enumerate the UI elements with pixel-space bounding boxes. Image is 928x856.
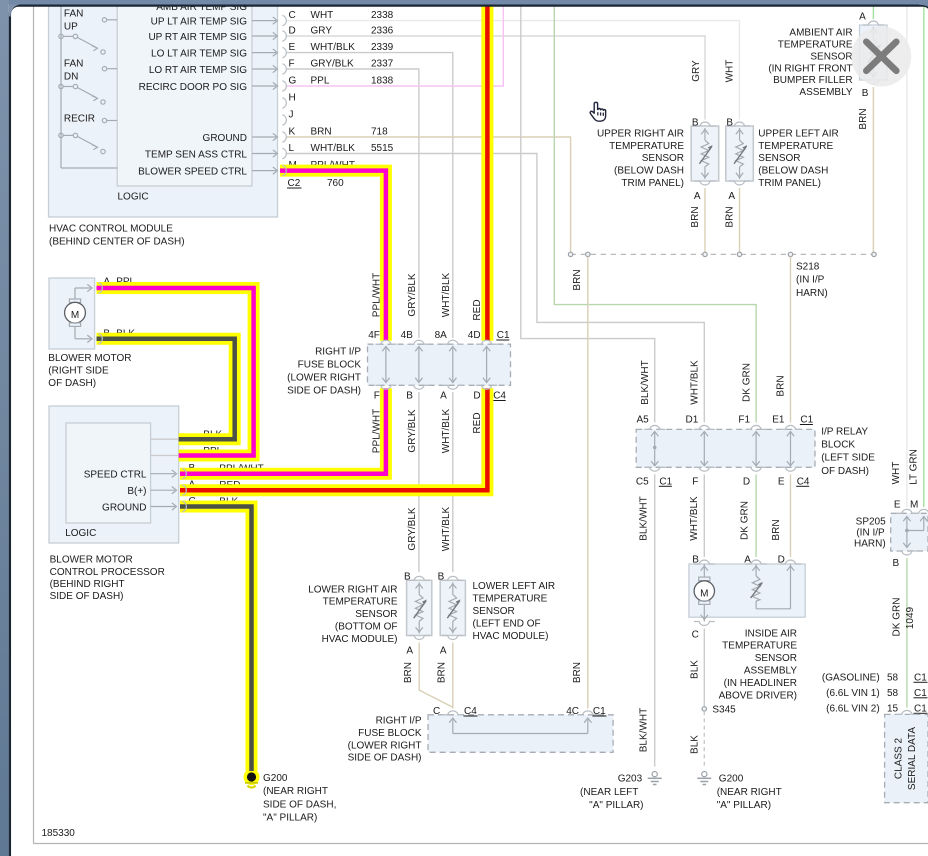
svg-text:LOGIC: LOGIC [65, 528, 96, 539]
svg-text:BLK: BLK [689, 660, 700, 679]
svg-text:SERIAL DATA: SERIAL DATA [907, 727, 918, 790]
wire BRN lower right sensor to fuse C [419, 643, 453, 708]
svg-text:D: D [473, 391, 480, 402]
svg-text:A: A [859, 12, 866, 23]
svg-text:5515: 5515 [371, 143, 394, 154]
svg-text:FUSE BLOCK: FUSE BLOCK [298, 360, 362, 371]
wire BRN upper left sensor to S218 [739, 188, 741, 252]
wire WHT top of page to SP205 E [906, 6, 908, 507]
svg-text:B: B [692, 118, 699, 129]
wire BRN S218 to lower fuse block 4C [587, 257, 589, 709]
svg-text:ASSEMBLY: ASSEMBLY [744, 666, 797, 677]
upper right air temperature sensor [691, 126, 719, 181]
svg-text:1838: 1838 [371, 76, 394, 87]
svg-text:SENSOR: SENSOR [642, 153, 684, 164]
splice S218 bus [571, 253, 874, 255]
wire BRN upper right sensor to S218 [704, 188, 706, 252]
highlighted wire RED battery feed fuse 4D to processor A [481, 6, 493, 341]
svg-text:TEMP SEN ASS CTRL: TEMP SEN ASS CTRL [145, 150, 248, 161]
svg-text:(LOWER RIGHT: (LOWER RIGHT [348, 740, 422, 751]
svg-text:SENSOR: SENSOR [355, 609, 397, 620]
svg-text:G200: G200 [263, 773, 288, 784]
svg-text:G203: G203 [618, 774, 643, 785]
svg-text:4C: 4C [566, 706, 579, 717]
svg-text:INSIDE AIR: INSIDE AIR [745, 628, 797, 639]
svg-text:RIGHT I/P: RIGHT I/P [376, 716, 422, 727]
wire BLK S345 to G200 [703, 711, 705, 766]
svg-text:DK GRN: DK GRN [891, 598, 902, 637]
svg-text:TRIM PANEL): TRIM PANEL) [621, 178, 684, 189]
svg-text:WHT: WHT [891, 462, 902, 485]
svg-text:HVAC MODULE): HVAC MODULE) [322, 634, 398, 645]
svg-text:TEMPERATURE: TEMPERATURE [722, 641, 797, 652]
blower motor control processor outer box [49, 406, 179, 543]
svg-text:RECIR: RECIR [64, 114, 95, 125]
svg-text:S218: S218 [796, 262, 820, 273]
svg-text:RED: RED [472, 299, 483, 320]
close button over ambient sensor [851, 27, 911, 87]
wire LT GRN top of page to SP205 M [923, 6, 925, 507]
svg-text:HARN): HARN) [854, 538, 886, 549]
svg-text:A: A [728, 191, 735, 202]
corner wedge top-left [9, 5, 19, 17]
svg-text:2338: 2338 [371, 10, 394, 21]
svg-text:BRN: BRN [572, 662, 583, 683]
right I/P fuse block box [368, 344, 511, 385]
diagram frame border [33, 6, 35, 844]
wire BRN 718 pin K to splice S218 [287, 137, 571, 252]
svg-text:(6.6L VIN 2): (6.6L VIN 2) [826, 703, 880, 714]
svg-text:E: E [778, 476, 785, 487]
svg-text:TRIM PANEL): TRIM PANEL) [758, 178, 821, 189]
svg-text:B: B [893, 558, 900, 569]
svg-text:GROUND: GROUND [203, 133, 247, 144]
svg-text:WHT/BLK: WHT/BLK [690, 360, 701, 405]
svg-text:C: C [692, 630, 699, 641]
corner wedge top-right [919, 5, 928, 7]
svg-text:HVAC CONTROL MODULE: HVAC CONTROL MODULE [49, 224, 173, 235]
mouse cursor [590, 102, 606, 121]
svg-text:S345: S345 [712, 705, 736, 716]
svg-text:WHT/BLK: WHT/BLK [441, 408, 452, 453]
inside sensor resistor [755, 564, 757, 576]
svg-text:SENSOR: SENSOR [758, 153, 800, 164]
svg-text:A5: A5 [636, 415, 649, 426]
HVAC logic box [117, 0, 252, 186]
svg-text:(LEFT SIDE: (LEFT SIDE [821, 453, 875, 464]
svg-text:WHT/BLK: WHT/BLK [441, 506, 452, 551]
svg-text:K: K [289, 127, 296, 138]
svg-text:SIDE OF DASH): SIDE OF DASH) [50, 591, 124, 602]
svg-text:(LEFT END OF: (LEFT END OF [473, 618, 541, 629]
svg-text:I/P RELAY: I/P RELAY [821, 426, 868, 437]
svg-text:SIDE OF DASH): SIDE OF DASH) [348, 753, 422, 764]
svg-text:LOWER LEFT AIR: LOWER LEFT AIR [473, 581, 556, 592]
svg-text:E1: E1 [772, 415, 785, 426]
svg-text:C5: C5 [636, 476, 649, 487]
svg-text:F: F [289, 59, 295, 70]
svg-text:WHT: WHT [724, 60, 735, 83]
highlighted wire BLK processor C to ground G200 [180, 507, 252, 772]
wire GRY 2336 pin D to upper right sensor [287, 36, 705, 120]
svg-text:A: A [440, 391, 447, 402]
svg-text:UP LT AIR TEMP SIG: UP LT AIR TEMP SIG [151, 17, 248, 28]
svg-text:WHT/BLK: WHT/BLK [689, 496, 700, 541]
svg-text:F: F [374, 391, 380, 402]
svg-text:BRN: BRN [403, 662, 414, 683]
wire WHT/BLK 2339 pin E to fuse 8A [287, 53, 453, 338]
svg-text:J: J [289, 110, 294, 121]
svg-text:B: B [438, 572, 445, 583]
lower left air temperature sensor [440, 580, 465, 635]
svg-text:WHT/BLK: WHT/BLK [441, 272, 452, 317]
svg-text:RED: RED [472, 412, 483, 433]
svg-text:(BEHIND RIGHT: (BEHIND RIGHT [50, 579, 125, 590]
svg-text:4D: 4D [468, 330, 481, 341]
svg-text:TEMPERATURE: TEMPERATURE [473, 594, 548, 605]
svg-text:G200: G200 [719, 774, 744, 785]
svg-text:D: D [289, 26, 296, 37]
svg-text:CONTROL PROCESSOR: CONTROL PROCESSOR [50, 567, 165, 578]
svg-text:(IN RIGHT FRONT: (IN RIGHT FRONT [768, 63, 852, 74]
svg-text:58: 58 [887, 672, 899, 683]
wire WHT/BLK fuse A to lower left sensor [452, 392, 454, 572]
wire PPL 1838 pin G to top of page [287, 6, 503, 86]
svg-text:(BELOW DASH: (BELOW DASH [758, 166, 828, 177]
wire GRY/BLK 2337 pin F to fuse 4B [287, 69, 419, 338]
svg-text:L: L [289, 143, 295, 154]
svg-text:E: E [289, 42, 296, 53]
svg-text:(GASOLINE): (GASOLINE) [822, 672, 880, 683]
svg-text:(BELOW DASH: (BELOW DASH [614, 166, 684, 177]
control processor PPL motor wire stub [151, 455, 179, 457]
svg-text:B: B [862, 88, 869, 99]
ground G200 near right A pillar [702, 772, 707, 777]
svg-text:GRY: GRY [691, 60, 702, 82]
svg-text:D: D [743, 476, 750, 487]
svg-text:LOGIC: LOGIC [118, 192, 149, 203]
svg-text:C1: C1 [800, 415, 813, 426]
svg-text:UP: UP [64, 22, 78, 33]
svg-text:DK GRN: DK GRN [741, 363, 752, 402]
svg-text:LO RT AIR TEMP SIG: LO RT AIR TEMP SIG [149, 65, 247, 76]
wire WHT/BLK relay F to inside sensor B [703, 474, 705, 557]
browser top bar [0, 0, 928, 5]
svg-text:BLK/WHT: BLK/WHT [639, 708, 650, 752]
svg-text:4B: 4B [401, 330, 414, 341]
svg-text:1049: 1049 [905, 606, 916, 629]
blower motor symbol [74, 288, 76, 299]
svg-text:SP205: SP205 [856, 517, 886, 528]
svg-text:BLK: BLK [689, 735, 700, 754]
svg-text:C1: C1 [593, 706, 606, 717]
svg-text:WHT/BLK: WHT/BLK [311, 143, 356, 154]
svg-text:UPPER LEFT AIR: UPPER LEFT AIR [758, 128, 838, 139]
splice block SP205 [891, 513, 928, 551]
svg-text:M: M [700, 588, 708, 599]
svg-text:A: A [406, 646, 413, 657]
wire BRN lower left sensor to fuse C [452, 643, 454, 709]
svg-text:BLOWER SPEED CTRL: BLOWER SPEED CTRL [138, 167, 247, 178]
svg-text:BLOCK: BLOCK [821, 440, 855, 451]
svg-text:E: E [894, 500, 901, 511]
svg-text:BRN: BRN [771, 519, 782, 540]
svg-text:SIDE OF DASH,: SIDE OF DASH, [263, 799, 336, 810]
svg-text:C4: C4 [464, 706, 477, 717]
svg-text:ABOVE DRIVER): ABOVE DRIVER) [719, 690, 797, 701]
svg-text:"A" PILLAR): "A" PILLAR) [589, 800, 643, 811]
svg-text:LOWER RIGHT AIR: LOWER RIGHT AIR [308, 584, 397, 595]
svg-text:M: M [910, 500, 918, 511]
blower motor M1 box [49, 278, 95, 349]
svg-text:BRN: BRN [572, 269, 583, 290]
svg-text:GRY/BLK: GRY/BLK [407, 409, 418, 452]
highlighted wire BLK blower motor B [97, 339, 235, 439]
svg-text:FAN: FAN [64, 9, 83, 20]
splice S345 [702, 707, 706, 711]
svg-text:C: C [433, 706, 440, 717]
class 2 serial data box [885, 714, 928, 802]
svg-text:B: B [406, 391, 413, 402]
svg-text:B(+): B(+) [127, 486, 146, 497]
svg-text:C1: C1 [497, 330, 510, 341]
svg-text:BRN: BRN [437, 662, 448, 683]
svg-text:(RIGHT SIDE: (RIGHT SIDE [48, 365, 109, 376]
svg-text:CLASS 2: CLASS 2 [894, 737, 905, 779]
svg-text:760: 760 [327, 178, 344, 189]
svg-text:185330: 185330 [42, 828, 76, 839]
svg-text:OF DASH): OF DASH) [821, 466, 869, 477]
switch common rail [60, 0, 62, 168]
svg-text:2339: 2339 [371, 42, 394, 53]
svg-text:(IN HEADLINER: (IN HEADLINER [724, 678, 797, 689]
wire DK GRN SP205 B to class 2 serial data [906, 558, 908, 708]
svg-text:SIDE OF DASH): SIDE OF DASH) [287, 386, 361, 397]
wire LT GRN top of page to ambient sensor [872, 6, 874, 19]
blower motor control processor logic box [66, 423, 151, 523]
svg-text:4F: 4F [368, 330, 380, 341]
wire DK GRN relay D to inside sensor A [755, 474, 757, 557]
svg-text:"A" PILLAR): "A" PILLAR) [263, 813, 317, 824]
svg-text:(NEAR LEFT: (NEAR LEFT [580, 787, 638, 798]
svg-text:SENSOR: SENSOR [473, 606, 515, 617]
svg-text:TEMPERATURE: TEMPERATURE [609, 141, 684, 152]
svg-text:(BOTTOM OF: (BOTTOM OF [335, 622, 398, 633]
svg-text:BLK/WHT: BLK/WHT [639, 496, 650, 540]
svg-text:BLOWER MOTOR: BLOWER MOTOR [48, 353, 131, 364]
svg-text:C4: C4 [493, 391, 506, 402]
wire WHT 2338 pin C to upper left sensor [287, 21, 739, 120]
svg-text:GRY/BLK: GRY/BLK [311, 59, 354, 70]
svg-text:C: C [289, 10, 296, 21]
svg-text:C1: C1 [914, 703, 927, 714]
svg-text:"A" PILLAR): "A" PILLAR) [717, 800, 771, 811]
svg-text:(NEAR RIGHT: (NEAR RIGHT [263, 786, 328, 797]
svg-text:WHT/BLK: WHT/BLK [311, 42, 356, 53]
svg-text:UPPER RIGHT AIR: UPPER RIGHT AIR [597, 128, 684, 139]
svg-text:15: 15 [887, 703, 899, 714]
svg-text:TEMPERATURE: TEMPERATURE [778, 40, 853, 51]
connector arcs HVAC C2 [282, 15, 286, 25]
svg-text:GRY/BLK: GRY/BLK [407, 273, 418, 316]
ground G203 [652, 772, 657, 777]
svg-text:BRN: BRN [858, 108, 869, 129]
highlighted wire PPL/WHT 760 HVAC M to fuse 4F to processor B [280, 171, 386, 341]
svg-text:C4: C4 [797, 476, 810, 487]
wire GRY/BLK fuse B to lower right sensor [418, 392, 420, 572]
svg-text:SENSOR: SENSOR [810, 51, 852, 62]
svg-text:OF DASH): OF DASH) [48, 378, 96, 389]
svg-text:FAN: FAN [64, 59, 83, 70]
svg-text:FUSE BLOCK: FUSE BLOCK [358, 728, 422, 739]
svg-text:(BEHIND CENTER OF DASH): (BEHIND CENTER OF DASH) [49, 237, 185, 248]
svg-text:(IN I/P: (IN I/P [856, 528, 885, 539]
ground G200 highlighted symbol [247, 772, 256, 781]
wire BLK/WHT relay C5 to G203 [654, 474, 656, 766]
svg-text:BRN: BRN [776, 375, 787, 396]
svg-text:LT GRN: LT GRN [909, 449, 920, 485]
svg-text:UP RT AIR TEMP SIG: UP RT AIR TEMP SIG [148, 32, 247, 43]
wire DK GRN from top of page to relay F1 [554, 6, 756, 423]
I/P relay block box [636, 429, 815, 467]
svg-text:PPL: PPL [311, 76, 330, 87]
HVAC control module outer box [49, 0, 278, 217]
svg-text:AMBIENT AIR: AMBIENT AIR [789, 28, 852, 39]
svg-text:C1: C1 [914, 672, 927, 683]
svg-text:G: G [289, 76, 297, 87]
highlighted wire PPL blower motor A [97, 288, 254, 456]
svg-text:8A: 8A [435, 330, 448, 341]
wire BRN S218 to relay E1 [790, 257, 792, 423]
svg-text:RECIRC DOOR PO SIG: RECIRC DOOR PO SIG [139, 82, 248, 93]
svg-text:GROUND: GROUND [102, 503, 146, 514]
svg-text:BLOWER MOTOR: BLOWER MOTOR [50, 555, 133, 566]
svg-text:H: H [289, 93, 296, 104]
svg-text:C1: C1 [659, 476, 672, 487]
wire WHT/BLK 5515 pin L to relay D1 [287, 154, 704, 423]
left page margin [0, 0, 9, 856]
svg-text:A: A [694, 191, 701, 202]
lower fuse block internal link [452, 720, 454, 734]
svg-text:TEMPERATURE: TEMPERATURE [758, 141, 833, 152]
svg-text:GRY/BLK: GRY/BLK [407, 507, 418, 550]
svg-text:BRN: BRN [725, 206, 736, 227]
svg-text:2337: 2337 [371, 59, 394, 70]
svg-text:A: A [440, 646, 447, 657]
inside sensor motor [703, 564, 705, 577]
connector arcs processor pins [182, 469, 186, 479]
svg-text:DK GRN: DK GRN [739, 501, 750, 540]
wire BLK/WHT from top of page to relay A5 [521, 6, 655, 423]
svg-text:F: F [692, 476, 698, 487]
svg-text:(NEAR RIGHT: (NEAR RIGHT [717, 787, 782, 798]
lower right air temperature sensor [407, 580, 432, 635]
svg-text:BRN: BRN [311, 127, 332, 138]
svg-text:GRY: GRY [311, 26, 333, 37]
svg-text:718: 718 [371, 127, 388, 138]
svg-text:2336: 2336 [371, 26, 394, 37]
wire BLK inside sensor C to S345 [703, 629, 705, 707]
inside air temperature sensor assembly box [689, 564, 805, 617]
svg-text:DN: DN [64, 72, 78, 83]
svg-text:LO LT AIR TEMP SIG: LO LT AIR TEMP SIG [151, 49, 247, 60]
svg-text:RIGHT I/P: RIGHT I/P [315, 347, 361, 358]
wire BRN relay E to inside sensor D [790, 474, 792, 557]
svg-text:58: 58 [887, 688, 899, 699]
svg-text:HVAC MODULE): HVAC MODULE) [473, 631, 549, 642]
control processor BLK motor wire stub [151, 438, 179, 440]
svg-text:BRN: BRN [690, 206, 701, 227]
svg-text:M: M [71, 310, 79, 321]
svg-text:B: B [404, 572, 411, 583]
svg-text:C1: C1 [914, 688, 927, 699]
ambient air temperature sensor [860, 25, 888, 80]
connector arcs blower motor pins [98, 283, 102, 293]
svg-text:SPEED CTRL: SPEED CTRL [84, 470, 147, 481]
svg-text:ASSEMBLY: ASSEMBLY [799, 87, 852, 98]
svg-text:HARN): HARN) [796, 288, 828, 299]
svg-text:F1: F1 [738, 415, 750, 426]
lower right I/P fuse block box [428, 715, 613, 753]
svg-text:WHT: WHT [311, 10, 334, 21]
svg-text:C2: C2 [288, 178, 301, 189]
svg-text:BUMPER FILLER: BUMPER FILLER [773, 75, 852, 86]
svg-text:BLK/WHT: BLK/WHT [640, 360, 651, 404]
svg-text:TEMPERATURE: TEMPERATURE [323, 597, 398, 608]
svg-text:B: B [726, 118, 733, 129]
wire BRN ambient sensor to S218 [872, 87, 874, 252]
svg-text:SENSOR: SENSOR [755, 653, 797, 664]
fuse block pin arcs [375, 340, 396, 344]
svg-text:(LOWER RIGHT: (LOWER RIGHT [287, 373, 361, 384]
svg-text:D1: D1 [686, 415, 699, 426]
svg-text:(IN I/P: (IN I/P [796, 275, 825, 286]
svg-text:(6.6L VIN 1): (6.6L VIN 1) [826, 688, 880, 699]
upper left air temperature sensor [726, 126, 754, 181]
